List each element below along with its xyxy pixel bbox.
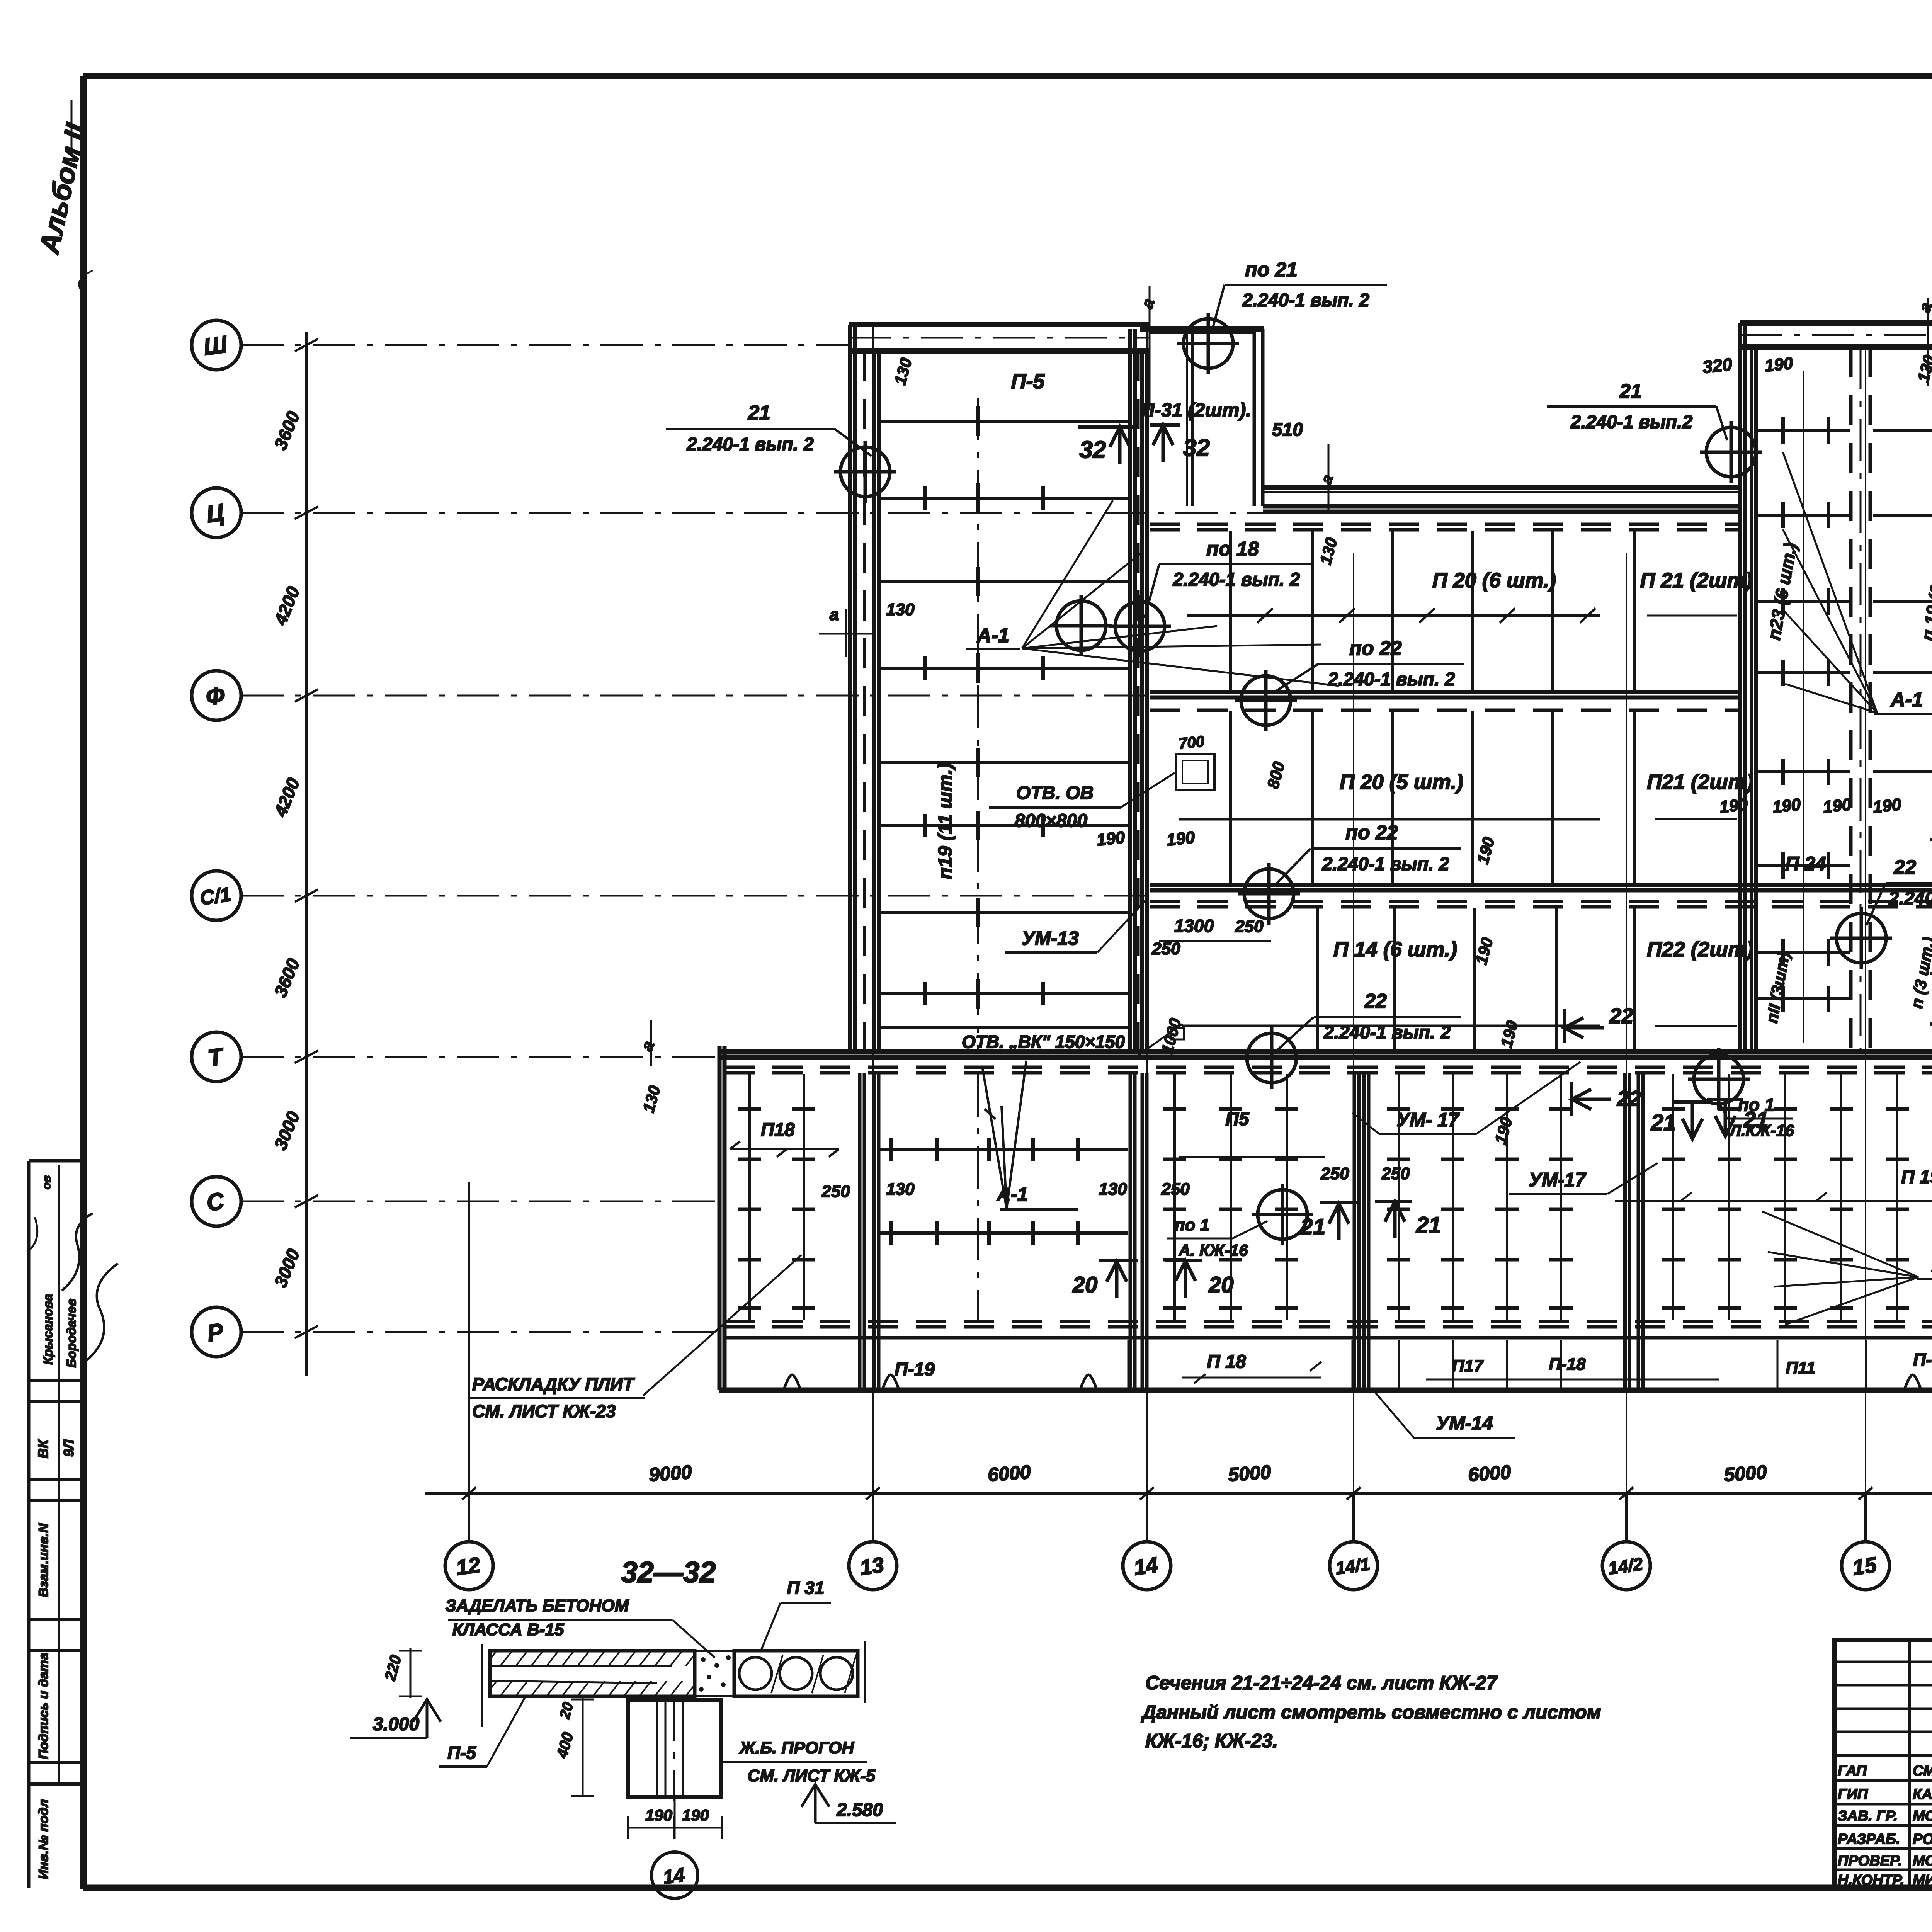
отв. ОВ 800х800 [989, 773, 1175, 831]
svg-text:32—32: 32—32 [621, 1556, 716, 1589]
leader: 21 / 2.240-1 вып.2 (mid) [1547, 380, 1727, 440]
wall: along axis Ф [1150, 692, 1740, 710]
svg-text:ВК: ВК [35, 1439, 51, 1458]
wall: along axis Т [719, 1052, 1932, 1073]
svg-text:13: 13 [858, 1552, 885, 1580]
svg-text:2.240-1 вып.2: 2.240-1 вып.2 [1570, 412, 1693, 432]
svg-text:21: 21 [1416, 1213, 1441, 1238]
svg-text:Данный лист смотреть совместн: Данный лист смотреть совместно с листом [1141, 1701, 1601, 1723]
svg-text:РАЗРАБ.: РАЗРАБ. [1838, 1831, 1900, 1847]
svg-text:П 24: П 24 [1785, 853, 1826, 874]
axis Ф [192, 671, 1150, 720]
svg-text:П 20 (5 шт.): П 20 (5 шт.) [1340, 770, 1463, 794]
svg-text:Ц: Ц [205, 499, 226, 528]
svg-text:РОНДАРЕВА: РОНДАРЕВА [1913, 1831, 1932, 1847]
plank joints: right block п19 bay [1873, 410, 1932, 1043]
svg-text:по 22: по 22 [1345, 821, 1398, 844]
wall: right block inner partition (dashed) [1851, 347, 1870, 1052]
svg-text:21: 21 [1300, 1214, 1326, 1240]
svg-text:9000: 9000 [648, 1461, 692, 1486]
svg-text:СМИРНОВ: СМИРНОВ [1913, 1763, 1932, 1779]
svg-text:250: 250 [1381, 1164, 1410, 1183]
А-1 fan (right block) [1783, 452, 1932, 714]
svg-text:П5: П5 [1225, 1109, 1250, 1129]
title block [1835, 1640, 1932, 1889]
svg-text:250: 250 [821, 1182, 850, 1201]
svg-text:П-18: П-18 [1549, 1355, 1586, 1374]
axis 14/2 [1602, 553, 1650, 1590]
svg-text:6000: 6000 [1467, 1461, 1512, 1486]
wall: top of left hall block (axis Ш) [849, 325, 1150, 351]
svg-text:по 1: по 1 [1175, 1216, 1209, 1235]
plank joints: left hall [880, 398, 1129, 1050]
leader: 22 / 2.240-1 вып.2 (на Т) [1277, 990, 1461, 1050]
svg-text:320: 320 [1701, 354, 1733, 377]
axis Ш [192, 320, 849, 370]
svg-text:2.240-1 вып. 2: 2.240-1 вып. 2 [686, 434, 814, 455]
node circle по 22 upper [1235, 670, 1297, 731]
svg-text:22: 22 [1609, 1003, 1633, 1028]
svg-text:ов: ов [40, 1175, 53, 1189]
bottom dimension chain [425, 1461, 1932, 1500]
svg-text:190: 190 [1165, 828, 1196, 849]
svg-text:22: 22 [1617, 1086, 1641, 1111]
svg-text:2.240-1 вып. 2: 2.240-1 вып. 2 [1173, 570, 1300, 590]
svg-text:Ш: Ш [202, 331, 229, 361]
wall: grid 14/2 below axis Т [1625, 1073, 1643, 1390]
svg-text:190: 190 [1872, 795, 1902, 816]
svg-text:32: 32 [1183, 435, 1210, 461]
svg-text:А. КЖ-16: А. КЖ-16 [1178, 1241, 1248, 1259]
svg-text:СМ. ЛИСТ КЖ-5: СМ. ЛИСТ КЖ-5 [748, 1766, 876, 1785]
svg-text:по 22: по 22 [1349, 637, 1402, 660]
svg-text:2.240-1 вып. 2: 2.240-1 вып. 2 [1322, 854, 1449, 874]
axis 13 [849, 327, 897, 1590]
svg-text:190: 190 [1771, 795, 1802, 816]
svg-text:СМ. ЛИСТ КЖ-23: СМ. ЛИСТ КЖ-23 [472, 1401, 616, 1421]
svg-text:Ф: Ф [204, 682, 226, 711]
node circle по 21 [1177, 313, 1239, 374]
node circle 22 on Т [1241, 1027, 1303, 1089]
axis С/1 [192, 871, 1150, 920]
А-1 fan (left hall) [966, 500, 1339, 686]
wall: middle section top [1263, 487, 1740, 492]
wall: along axis С/1 [1150, 885, 1932, 907]
title block texts [1838, 1643, 1932, 1889]
svg-text:П-5: П-5 [1011, 370, 1045, 393]
section mark 20 (pair) [1072, 1260, 1138, 1298]
svg-text:ОТВ. ОВ: ОТВ. ОВ [1016, 783, 1094, 803]
leader: 21 / 2.240-1 вып.2 (left) [666, 401, 871, 456]
notes text [1141, 1672, 1601, 1752]
leader: по 1 / Л.КЖ-16 [1720, 1095, 1794, 1139]
svg-text:Н.КОНТР.: Н.КОНТР. [1838, 1872, 1904, 1888]
svg-text:510: 510 [1272, 420, 1303, 440]
svg-text:ГИП: ГИП [1838, 1786, 1868, 1803]
svg-text:по 21: по 21 [1245, 259, 1298, 281]
leader: 22 / 2.240-1 вып.2 (П6) [1866, 856, 1932, 925]
svg-text:20: 20 [1208, 1272, 1234, 1298]
svg-text:П 19: П 19 [1901, 1167, 1932, 1187]
svg-text:П-7: П-7 [1913, 1350, 1932, 1370]
svg-text:А-1: А-1 [996, 1184, 1028, 1205]
svg-text:190: 190 [1822, 795, 1852, 816]
svg-text:П-31 (2шт).: П-31 (2шт). [1141, 399, 1251, 421]
wall: along axis Р [724, 1321, 1932, 1338]
plank joints: bay Ц-Ф (П 20) [1187, 531, 1737, 691]
leader: по 22 / 2.240-1 вып.2 (upper) [1275, 637, 1464, 692]
svg-text:250: 250 [1161, 1180, 1190, 1199]
plank row along Р [1128, 1340, 1932, 1389]
node circle по 22 lower [1238, 863, 1300, 925]
wall: grid 14 between hall and middle bays [1130, 329, 1147, 1052]
УМ-17 label (upper) [1352, 1062, 1580, 1134]
svg-text:Инв.№ подл: Инв.№ подл [36, 1799, 51, 1879]
svg-text:21: 21 [748, 401, 770, 424]
УМ-13 label [1005, 900, 1146, 952]
svg-text:УМ-17: УМ-17 [1529, 1169, 1587, 1190]
svg-text:130: 130 [886, 600, 915, 619]
bay labels [730, 370, 1932, 1383]
plank joints: lower wing verticals [738, 1074, 1932, 1320]
small dimension labels [637, 286, 1932, 1266]
node circle 21 left [834, 441, 896, 503]
wall: along axis Ц [1150, 506, 1740, 530]
раскладка плит note [470, 1255, 801, 1421]
wall: right block left side [1740, 323, 1756, 1052]
svg-text:9Л: 9Л [61, 1439, 77, 1457]
axis Т [192, 1032, 719, 1082]
svg-text:П 18: П 18 [1207, 1352, 1246, 1372]
svg-text:21: 21 [1651, 1110, 1676, 1135]
node circle по 1 left [1688, 1048, 1750, 1110]
svg-text:22: 22 [1364, 990, 1387, 1012]
wall: grid 13 below axis Т [860, 1073, 879, 1390]
album handwritten note [34, 100, 93, 294]
svg-text:130: 130 [1099, 1180, 1127, 1199]
svg-text:П11: П11 [1786, 1359, 1815, 1378]
axis 14/1 [1330, 553, 1378, 1590]
svg-text:250: 250 [1320, 1164, 1349, 1183]
plank joints: bay 13-14 below Т (horizontal) [880, 1074, 1128, 1320]
svg-text:2.240-1 вып.2: 2.240-1 вып.2 [1888, 888, 1932, 909]
svg-text:Ж.Б. ПРОГОН: Ж.Б. ПРОГОН [739, 1738, 854, 1757]
plank joints: bay С/1-Т (П 14) [1171, 908, 1737, 1051]
svg-text:Крысанова: Крысанова [41, 1294, 55, 1364]
svg-text:РАСКЛАДКУ ПЛИТ: РАСКЛАДКУ ПЛИТ [472, 1374, 635, 1394]
svg-text:МОРОЗОВА: МОРОЗОВА [1913, 1808, 1932, 1824]
svg-text:32: 32 [1080, 437, 1106, 463]
svg-text:14: 14 [1132, 1552, 1159, 1580]
УМ-14 label [1376, 1393, 1515, 1438]
svg-text:П-19: П-19 [895, 1359, 935, 1380]
section mark 21 (pair, down) [1651, 1102, 1712, 1139]
svg-text:Подпись и дата: Подпись и дата [36, 1653, 51, 1759]
leader: по 22 / 2.240-1 вып.2 (lower) [1275, 821, 1461, 885]
svg-text:п19 (11 шт.): п19 (11 шт.) [934, 763, 956, 879]
wall: П-31 shaft [1140, 329, 1264, 506]
plank joints: right block п23 strip [1758, 371, 1850, 1043]
svg-text:2.240-1 вып. 2: 2.240-1 вып. 2 [1328, 669, 1455, 690]
leader: по 18 / 2.240-1 вып.2 [1145, 538, 1314, 618]
axis 14 [1123, 329, 1171, 1590]
node circle по 1 КЖ-16 [1252, 1184, 1313, 1245]
svg-text:22: 22 [1893, 856, 1916, 879]
svg-text:А-1: А-1 [1890, 689, 1923, 711]
svg-text:Взам.инв.N: Взам.инв.N [36, 1523, 51, 1597]
axis Р [192, 1307, 724, 1357]
svg-text:П 14 (6 шт.): П 14 (6 шт.) [1333, 938, 1457, 961]
left dimension chain [270, 332, 318, 1376]
svg-text:а: а [830, 605, 839, 624]
node circle 21 mid [1700, 421, 1762, 483]
svg-text:20: 20 [1072, 1272, 1098, 1298]
node circle по 18 [1109, 595, 1171, 657]
svg-text:ГАП: ГАП [1838, 1763, 1867, 1779]
svg-text:КЖ-16; КЖ-23.: КЖ-16; КЖ-23. [1145, 1730, 1278, 1752]
svg-text:2.240-1 вып. 2: 2.240-1 вып. 2 [1323, 1022, 1451, 1043]
wall: left edge of lower wing [719, 1046, 724, 1390]
svg-text:П21 (2шт): П21 (2шт) [1647, 770, 1753, 794]
svg-text:П18: П18 [761, 1120, 795, 1140]
weld marks on bottom edge [784, 1375, 1921, 1390]
svg-text:1300: 1300 [1174, 916, 1214, 936]
node circle 22 П6 [1830, 907, 1892, 969]
svg-text:ЗАДЕЛАТЬ БЕТОНОМ: ЗАДЕЛАТЬ БЕТОНОМ [446, 1596, 629, 1615]
svg-text:ОТВ. „ВК" 150×150: ОТВ. „ВК" 150×150 [962, 1032, 1125, 1052]
leader: по 1 / А.КЖ-16 [1167, 1216, 1267, 1259]
axis 12 [445, 1182, 493, 1590]
wall: grid 14 below axis Т [1130, 1073, 1147, 1390]
svg-text:П 31: П 31 [787, 1578, 824, 1598]
svg-text:2.240-1 вып. 2: 2.240-1 вып. 2 [1242, 290, 1369, 311]
svg-text:15: 15 [1851, 1552, 1878, 1580]
svg-text:6000: 6000 [987, 1461, 1031, 1486]
svg-text:190: 190 [645, 1806, 672, 1824]
svg-text:Сечения 21-21÷24-24 см. лист: Сечения 21-21÷24-24 см. лист КЖ-27 [1145, 1672, 1498, 1694]
leader: по 21 / 2.240-1 вып.2 (top) [1211, 259, 1387, 333]
svg-text:800×800: 800×800 [1015, 811, 1088, 831]
svg-text:14: 14 [662, 1864, 686, 1888]
svg-text:190: 190 [1718, 795, 1749, 816]
axis Ц [192, 488, 1263, 537]
svg-text:МИХЕЕВ: МИХЕЕВ [1913, 1872, 1932, 1888]
section mark 32 (pair) [1078, 427, 1134, 464]
node circle A [1050, 595, 1112, 656]
svg-text:С/1: С/1 [199, 883, 233, 910]
svg-text:3.000: 3.000 [373, 1714, 419, 1735]
svg-text:УМ-13: УМ-13 [1022, 927, 1079, 949]
svg-text:КАЛЕДИНА: КАЛЕДИНА [1913, 1786, 1932, 1803]
А-1 fan (wing right) [1762, 1211, 1932, 1325]
svg-text:по 18: по 18 [1206, 538, 1259, 560]
plank joints: bay Ф-С/1 (П 20 5шт) [1176, 711, 1737, 884]
svg-text:190: 190 [682, 1806, 709, 1824]
svg-text:УМ- 17: УМ- 17 [1396, 1109, 1460, 1131]
отв. ВК 150х150 [951, 1024, 1182, 1057]
svg-text:250: 250 [1151, 939, 1180, 958]
svg-text:УМ-14: УМ-14 [1436, 1412, 1493, 1434]
svg-text:5000: 5000 [1723, 1461, 1767, 1486]
svg-text:12: 12 [454, 1552, 481, 1580]
svg-text:190: 190 [1095, 828, 1126, 849]
svg-text:5000: 5000 [1227, 1461, 1272, 1486]
svg-text:П 20 (6 шт.): П 20 (6 шт.) [1432, 569, 1556, 592]
УМ-17 label (lower) [1509, 1163, 1658, 1194]
svg-text:МОРОЗОВА: МОРОЗОВА [1913, 1853, 1932, 1869]
axis С [192, 1177, 719, 1226]
А-1 fan (wing left) [982, 1061, 1078, 1209]
wall: grid 14/1 below axis Т [1354, 1073, 1369, 1390]
svg-text:21: 21 [1619, 380, 1642, 403]
axis 15 [1842, 350, 1889, 1590]
svg-text:ЗАВ. ГР.: ЗАВ. ГР. [1838, 1808, 1898, 1824]
svg-text:П17: П17 [1452, 1357, 1484, 1376]
section mark 21 (pair, wing) [1300, 1202, 1360, 1240]
svg-text:2.580: 2.580 [836, 1800, 883, 1820]
svg-text:ПРОВЕР.: ПРОВЕР. [1838, 1853, 1902, 1869]
svg-text:130: 130 [886, 1180, 915, 1199]
svg-text:Бородачев: Бородачев [64, 1299, 78, 1368]
wall: left of hall along grid 13 [850, 325, 879, 1052]
svg-text:А-1: А-1 [976, 624, 1009, 647]
wall: right block top (axis Ш) [1740, 323, 1932, 347]
section 32-32 drawing [350, 1578, 896, 1898]
wall: bottom edge of lower wing [719, 1388, 1932, 1393]
svg-text:П 21 (2шт): П 21 (2шт) [1640, 569, 1753, 592]
svg-text:21: 21 [1743, 1107, 1769, 1133]
svg-text:КЛАССА В-15: КЛАССА В-15 [452, 1620, 564, 1639]
svg-text:250: 250 [1235, 917, 1264, 936]
svg-text:П-5: П-5 [447, 1743, 476, 1763]
left margin stamp column [27, 1161, 118, 1888]
svg-text:700: 700 [1178, 733, 1205, 753]
svg-text:П22 (2шт): П22 (2шт) [1647, 938, 1753, 961]
section mark 22 (pair, left arrows) [1564, 1003, 1633, 1043]
svg-text:190: 190 [1764, 354, 1794, 375]
